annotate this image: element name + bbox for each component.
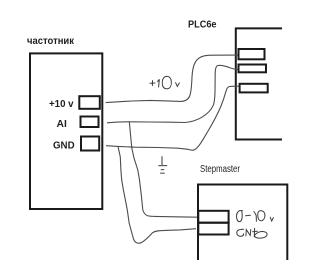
- branch wire AI junction down to Stepmaster 0-10v: [129, 122, 197, 217]
- wire AI to PLC terminal 2: [107, 65, 238, 123]
- svg-text:Stepmaster: Stepmaster: [200, 164, 241, 175]
- Stepmaster box (bottom cut off): [198, 185, 287, 260]
- PLC box (open right side): [236, 28, 282, 139]
- svg-text:AI: AI: [57, 119, 68, 130]
- VFD box (частотник): [30, 53, 102, 209]
- PLC terminal 3: [240, 84, 268, 93]
- svg-text:частотник: частотник: [27, 36, 75, 47]
- handwritten 0-10 v annotation: [237, 210, 274, 221]
- Stepmaster terminal 1: [198, 211, 228, 223]
- svg-text:PLC6e: PLC6e: [188, 20, 217, 31]
- wire GND rises to PLC terminal 3: [106, 86, 239, 150]
- svg-text:+10 v: +10 v: [49, 99, 74, 110]
- terminal GND: [81, 137, 99, 151]
- PLC terminal 2: [239, 65, 267, 73]
- PLC terminal 1: [239, 49, 265, 59]
- handwritten GND annotation: [237, 228, 267, 238]
- handwritten +10 v annotation: [150, 76, 179, 88]
- terminal +10v: [79, 96, 100, 109]
- terminal AI: [81, 117, 99, 128]
- wire +10v to PLC terminal 1: [106, 55, 238, 103]
- branch wire GND junction down to Stepmaster GND: [118, 146, 196, 243]
- Stepmaster terminal 2: [198, 223, 228, 235]
- svg-text:GND: GND: [53, 141, 75, 152]
- ground symbol: [158, 156, 167, 173]
